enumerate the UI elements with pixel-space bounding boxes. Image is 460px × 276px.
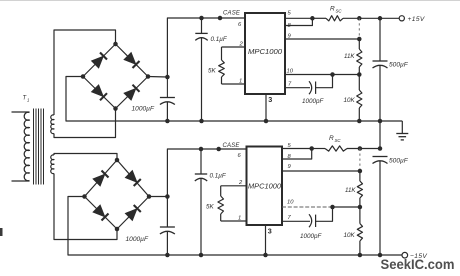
svg-text:7: 7 <box>288 215 292 221</box>
svg-text:10K: 10K <box>344 97 356 104</box>
node B junction <box>310 16 315 21</box>
pin 1 label U1 <box>239 79 242 85</box>
wire 1000pF to pin10 node <box>316 75 333 88</box>
label 5K bottom <box>206 204 215 211</box>
label 5K top <box>208 68 217 75</box>
label Rsc top <box>330 6 342 14</box>
label 1000pF bottom <box>300 233 323 240</box>
pin 9 label U2 <box>288 164 292 170</box>
terminal +15V <box>399 16 404 21</box>
pin 5 label U1 <box>288 11 292 17</box>
wire ground bus drop <box>401 121 403 134</box>
wire pin9 U1 <box>285 37 362 42</box>
bridge1 diamond wires <box>83 44 148 109</box>
bridge1 diode D2 (top-right arm) <box>124 52 140 68</box>
scan artifact top edge <box>0 0 460 2</box>
pin 3 label U2 <box>268 227 272 236</box>
pin 3 label U1 <box>268 95 272 104</box>
label +15V <box>408 16 425 23</box>
bridge2 diode D7 (left-bottom arm) <box>93 205 109 221</box>
junction pin10-2/1000pF top <box>330 205 335 210</box>
capacitor 0.1uF (bottom supply) <box>195 149 207 255</box>
wire pin7 U1 <box>285 87 310 89</box>
wire bridge1 minus to ground bus <box>66 77 402 122</box>
transformer T1 primary lead top <box>12 111 30 113</box>
svg-text:CASE: CASE <box>223 143 241 149</box>
wire S1 bottom to bridge1 AC bottom <box>54 109 116 138</box>
svg-text:SC: SC <box>336 9 343 14</box>
wire pin10 U1 <box>285 72 362 77</box>
node G junction (Rsc2 output) <box>358 146 363 151</box>
resistor 11K (bottom supply) <box>357 171 362 207</box>
node F junction <box>309 146 314 151</box>
junction 0.1uF top <box>199 16 204 21</box>
resistor 11K (top supply) <box>357 39 362 75</box>
wire pin1 U2 <box>221 220 247 222</box>
node CASE (bottom IC) <box>216 147 221 152</box>
svg-text:5: 5 <box>288 11 292 17</box>
node D junction (500uF tap) <box>378 16 383 21</box>
transformer T1 secondary winding S2 <box>51 155 54 174</box>
pin 8 label U1 <box>288 23 292 29</box>
wire pin7 U2 <box>282 220 310 222</box>
svg-text:R: R <box>329 135 334 142</box>
pin 1 label U2 <box>238 216 241 222</box>
transformer T1 secondary winding S1 <box>51 115 54 134</box>
pin 7 label U1 <box>288 82 292 88</box>
wire pin9 U2 <box>282 169 362 174</box>
label CASE bottom <box>223 143 241 149</box>
node E junction <box>165 194 170 199</box>
pin 6 label U1 <box>238 22 242 28</box>
svg-text:11K: 11K <box>345 187 356 194</box>
svg-text:1000µF: 1000µF <box>126 236 149 243</box>
capacitor 500uF (bottom supply) <box>373 157 388 256</box>
wire S2 top to bridge2 AC top <box>54 154 117 161</box>
svg-text:10K: 10K <box>344 232 356 239</box>
svg-text:6: 6 <box>238 153 242 159</box>
wire pin3 U2 to -15V bus <box>263 225 268 257</box>
svg-text:SC: SC <box>335 138 342 143</box>
label 0.1uF bottom <box>210 173 227 180</box>
svg-text:5K: 5K <box>208 68 217 75</box>
pin 7 label U2 <box>288 215 292 221</box>
wire S1 top to bridge1 AC top <box>54 30 116 115</box>
pin 2 label U2 <box>238 180 243 186</box>
wire node G to pin9 (dashed) <box>359 149 361 172</box>
pin 8 label U2 <box>288 154 292 160</box>
pin 9 label U1 <box>288 34 292 40</box>
svg-text:2: 2 <box>238 180 243 186</box>
svg-text:6: 6 <box>238 22 242 28</box>
scan artifact left edge mark <box>0 228 3 236</box>
pin 6 label U2 <box>238 153 242 159</box>
node A junction <box>165 75 170 80</box>
svg-text:500µF: 500µF <box>389 158 409 165</box>
capacitor 1000uF (top supply) <box>160 77 175 121</box>
wire bridge2 plus to node E <box>149 196 167 198</box>
wire bridge1 plus to node A <box>148 76 167 79</box>
resistor 10K (top supply) <box>357 75 362 124</box>
capacitor 1000pF (bottom supply) <box>309 214 316 227</box>
junction 0.1uF bottom on bus <box>199 119 204 124</box>
label 10K top <box>344 97 356 104</box>
resistor Rsc (bottom supply) <box>325 146 347 151</box>
label 0.1uF top <box>211 36 228 43</box>
wire Rsc to +15V terminal <box>343 17 399 19</box>
resistor 5K (bottom supply) <box>218 186 224 221</box>
wire node F to Rsc2 <box>312 148 325 150</box>
wire node C to pin9 (dashed) <box>358 18 360 39</box>
node C junction (Rsc output) <box>357 16 362 21</box>
svg-text:500µF: 500µF <box>389 62 409 69</box>
svg-text:1: 1 <box>27 98 29 103</box>
svg-text:0.1µF: 0.1µF <box>211 36 228 43</box>
svg-text:0.1µF: 0.1µF <box>210 173 227 180</box>
resistor 5K (top supply) <box>219 47 225 84</box>
bridge1 corner junctions <box>81 42 151 111</box>
wire pin5 U1 to node B <box>285 17 312 19</box>
transformer T1 primary winding <box>24 112 29 180</box>
watermark SeekIC.com <box>381 257 455 273</box>
wire pin2 U1 <box>222 46 246 48</box>
bridge2 diode D5 (left-top arm) <box>93 171 109 187</box>
junction 1000uF bottom on bus <box>165 119 170 124</box>
node CASE (top IC) <box>218 16 223 21</box>
wire pin10 node to resistor chain <box>332 205 362 210</box>
svg-text:10: 10 <box>287 200 294 206</box>
capacitor 500uF (top supply) <box>373 18 388 149</box>
svg-text:1: 1 <box>238 216 241 222</box>
node H junction (ground tie) <box>378 146 383 151</box>
svg-text:MPC1000: MPC1000 <box>248 49 282 56</box>
svg-text:10: 10 <box>287 69 294 75</box>
label 1000pF top <box>302 98 325 105</box>
junction 500uF-2 bottom on bus <box>378 253 383 258</box>
op-amp regulator U1 MPC1000 <box>245 13 285 94</box>
bridge2 corner junctions <box>82 158 151 232</box>
label 1000uF top <box>132 106 155 113</box>
wire 1000pF-2 to pin10 node <box>316 207 333 221</box>
capacitor 0.1uF (top supply) <box>195 18 207 121</box>
wire pin8 U2 loop <box>282 149 312 160</box>
resistor 10K (bottom supply) <box>357 207 362 257</box>
bridge1 diode D3 (left-bottom arm) <box>91 85 107 101</box>
wire pin5 U2 to node F <box>282 148 312 150</box>
junction 0.1uF-2 top <box>199 147 204 152</box>
svg-text:+15V: +15V <box>408 16 425 23</box>
svg-text:MPC1000: MPC1000 <box>248 184 281 191</box>
svg-text:11K: 11K <box>344 53 355 60</box>
transformer T1 primary lead bottom <box>12 180 30 182</box>
wire pin3 U1 to ground bus <box>264 94 269 123</box>
wire bridge2 minus to -15V bus <box>68 197 402 256</box>
svg-text:9: 9 <box>288 164 292 170</box>
svg-text:5K: 5K <box>206 204 215 211</box>
bridge1 diode D4 (bottom-right arm) <box>124 85 140 101</box>
label 500uF bottom <box>389 158 409 165</box>
label -15V <box>410 253 427 260</box>
transformer T1 core <box>34 109 44 185</box>
svg-text:3: 3 <box>268 95 272 104</box>
label 1000uF bottom <box>126 236 149 243</box>
svg-text:1: 1 <box>239 79 242 85</box>
wire node B to Rsc <box>312 17 326 19</box>
capacitor 1000pF (top supply) <box>309 81 316 94</box>
svg-text:1000pF: 1000pF <box>302 98 325 105</box>
svg-text:1000pF: 1000pF <box>300 233 323 240</box>
junction pin10/1000pF top <box>330 72 335 77</box>
label 11K bottom <box>345 187 356 194</box>
transformer T1 label <box>23 96 30 103</box>
bridge2 diode D8 (bottom-right arm) <box>125 205 141 221</box>
wire pin10 U2 (dashed scan) <box>282 206 333 208</box>
capacitor 1000uF (bottom supply) <box>160 197 175 256</box>
label 11K top <box>344 53 355 60</box>
junction 1000uF-2 bottom on bus <box>165 253 170 258</box>
bridge1 diode D1 (left-top arm) <box>91 53 107 69</box>
wire Rsc2 to ground drop <box>347 148 380 150</box>
wire pin2 U2 <box>221 185 247 187</box>
label Rsc bottom <box>329 135 341 143</box>
svg-text:CASE: CASE <box>223 11 241 17</box>
junction 0.1uF-2 bottom on bus <box>199 253 204 258</box>
svg-text:7: 7 <box>288 82 292 88</box>
bridge2 diamond wires <box>85 160 150 229</box>
junction 500uF top bus crossing <box>378 119 383 124</box>
resistor Rsc (top supply) <box>326 16 343 21</box>
svg-text:1000µF: 1000µF <box>132 106 155 113</box>
wire pin1 U1 <box>222 83 246 85</box>
pin 5 label U2 <box>288 143 292 149</box>
pin 2 label U1 <box>239 42 244 48</box>
pin 10 label U1 <box>287 69 294 75</box>
label 500uF top <box>389 62 409 69</box>
svg-text:R: R <box>330 6 335 13</box>
svg-text:SeekIC.com: SeekIC.com <box>381 257 455 273</box>
label 10K bottom <box>344 232 356 239</box>
bridge2 diode D6 (top-right arm) <box>125 170 141 186</box>
label CASE top <box>223 11 241 17</box>
svg-text:3: 3 <box>268 227 272 236</box>
wire S2 bottom to bridge2 AC bottom <box>54 174 117 240</box>
pin 10 label U2 <box>287 200 294 206</box>
wire node E up to input rail 2 <box>167 149 246 197</box>
op-amp regulator U2 MPC1000 <box>247 147 283 226</box>
terminal -15V <box>402 252 408 258</box>
wire pin8 U1 loop <box>285 18 312 25</box>
ground symbol <box>396 134 408 140</box>
wire node A up to input rail <box>167 18 245 77</box>
